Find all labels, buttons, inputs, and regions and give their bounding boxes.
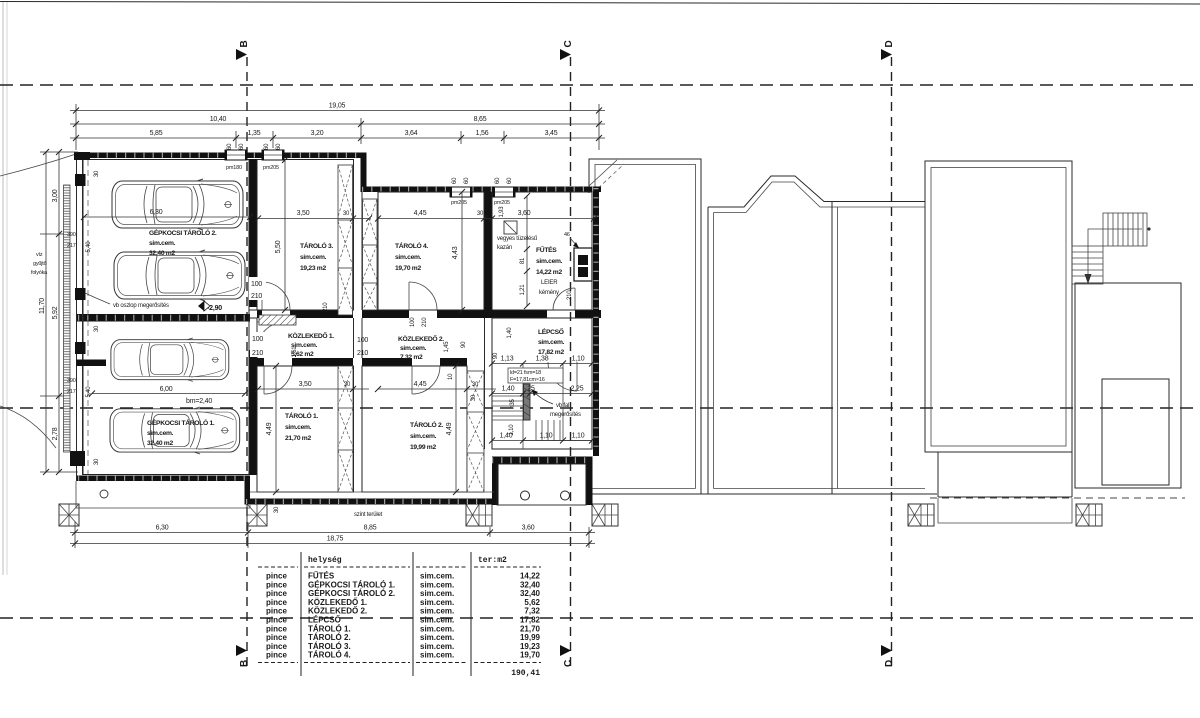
ticks rows — [73, 108, 79, 114]
window w4 pm205 — [493, 187, 515, 197]
svg-text:60: 60 — [464, 177, 470, 184]
svg-text:19,23: 19,23 — [520, 642, 541, 651]
svg-text:4,49: 4,49 — [446, 422, 453, 435]
terrain arc top-left — [0, 154, 76, 176]
svg-text:5,62 m2: 5,62 m2 — [291, 351, 314, 358]
wall right — [593, 187, 599, 457]
svg-text:pm180: pm180 — [226, 165, 242, 171]
svg-text:390: 390 — [67, 378, 76, 384]
T4 4,45/30 dim — [378, 218, 492, 220]
svg-text:60: 60 — [264, 143, 270, 150]
svg-text:KÖZLEKEDŐ 1.: KÖZLEKEDŐ 1. — [288, 331, 334, 340]
wall under T4 segment — [362, 310, 409, 318]
svg-text:6,30: 6,30 — [156, 525, 169, 532]
svg-text:sim.cem.: sim.cem. — [400, 345, 427, 352]
apron drain circle — [100, 490, 108, 498]
T3 3,50/30 dim — [258, 218, 369, 220]
svg-text:30: 30 — [94, 170, 100, 177]
svg-text:1,38: 1,38 — [536, 356, 549, 363]
svg-text:2,78: 2,78 — [52, 427, 59, 440]
svg-text:GÉPKOCSI TÁROLÓ 2.: GÉPKOCSI TÁROLÓ 2. — [149, 228, 217, 237]
svg-text:h35: h35 — [510, 398, 516, 408]
wall garage right pier top — [249, 159, 257, 307]
svg-text:sim.cem.: sim.cem. — [420, 616, 454, 625]
svg-text:100: 100 — [252, 336, 263, 343]
T1 room interior — [257, 366, 354, 492]
svg-text:1,10: 1,10 — [572, 356, 585, 363]
svg-text:30: 30 — [471, 394, 477, 401]
section line D — [891, 57, 893, 668]
section line C — [570, 57, 572, 668]
svg-text:210: 210 — [567, 290, 573, 300]
door garage to K1 — [257, 322, 285, 350]
car 4 — [110, 407, 240, 454]
svg-text:30: 30 — [472, 382, 479, 388]
strip T4 left upper — [363, 199, 378, 310]
svg-text:30: 30 — [94, 325, 100, 332]
svg-text:pm205: pm205 — [494, 200, 510, 206]
wall corridor bottom left segment — [257, 358, 264, 366]
svg-text:FŰTÉS: FŰTÉS — [536, 245, 557, 254]
svg-text:sim.cem.: sim.cem. — [285, 424, 312, 431]
wall garage right pier bottom — [249, 350, 257, 475]
svg-text:3,60: 3,60 — [518, 210, 531, 217]
svg-text:vb oszlop megerősítés: vb oszlop megerősítés — [113, 303, 169, 309]
svg-text:TÁROLÓ 2.: TÁROLÓ 2. — [410, 420, 443, 429]
svg-text:sim.cem.: sim.cem. — [420, 589, 454, 598]
svg-text:17,82 m2: 17,82 m2 — [538, 349, 564, 356]
door K2 to LÉPCSŐ — [548, 362, 577, 391]
section marker D top — [881, 49, 892, 60]
table dashed separator bottom — [258, 662, 541, 664]
svg-text:1,40: 1,40 — [507, 327, 513, 339]
svg-text:GÉPKOCSI TÁROLÓ 1.: GÉPKOCSI TÁROLÓ 1. — [308, 580, 395, 589]
svg-text:TÁROLÓ 1.: TÁROLÓ 1. — [285, 411, 318, 420]
porch wall left — [492, 457, 499, 506]
svg-text:217: 217 — [67, 243, 76, 249]
T2 room interior — [362, 366, 467, 492]
outline shape B gable inner — [714, 182, 838, 213]
svg-text:90: 90 — [461, 341, 467, 348]
outline shape B left double — [707, 207, 709, 494]
svg-text:30: 30 — [274, 506, 280, 513]
svg-text:folyóka: folyóka — [31, 270, 48, 276]
svg-text:B: B — [239, 40, 250, 47]
svg-text:sim.cem.: sim.cem. — [149, 240, 176, 247]
svg-text:3,64: 3,64 — [405, 130, 418, 137]
table column bar 3 — [470, 552, 472, 676]
section marker B bottom — [236, 645, 247, 656]
svg-text:210: 210 — [251, 293, 262, 300]
outline shape A outer — [589, 159, 701, 494]
stair treads bottom flight — [535, 420, 537, 441]
svg-text:megerősítés: megerősítés — [550, 412, 581, 418]
svg-text:TÁROLÓ 3.: TÁROLÓ 3. — [300, 241, 333, 250]
svg-text:32,40: 32,40 — [520, 589, 541, 598]
svg-text:100: 100 — [357, 337, 368, 344]
svg-text:17,82: 17,82 — [520, 616, 541, 625]
svg-text:sim.cem.: sim.cem. — [147, 430, 174, 437]
svg-text:KÖZLEKEDŐ 2.: KÖZLEKEDŐ 2. — [308, 607, 367, 616]
svg-text:19,70 m2: 19,70 m2 — [395, 265, 421, 272]
svg-text:30: 30 — [343, 211, 350, 217]
hatched floor strip at K1 entry — [259, 315, 296, 325]
wall corridor bottom T2 left segment — [362, 358, 412, 366]
svg-text:210: 210 — [357, 350, 368, 357]
svg-text:kazán: kazán — [497, 245, 512, 251]
svg-text:5,40: 5,40 — [86, 386, 92, 398]
footing pad porch left — [466, 504, 492, 526]
section marker C bottom — [560, 645, 571, 656]
outline common bottom — [589, 493, 937, 495]
svg-text:32,40 m2: 32,40 m2 — [147, 440, 173, 447]
strip T3 right upper — [338, 165, 353, 315]
svg-text:11,70: 11,70 — [39, 298, 46, 314]
axis dashed horizontal y408 — [0, 407, 1200, 409]
svg-text:sim.cem.: sim.cem. — [420, 580, 454, 589]
svg-text:B: B — [239, 660, 250, 667]
svg-text:C: C — [563, 660, 574, 667]
porch column circle 1 — [521, 491, 530, 500]
svg-text:sim.cem.: sim.cem. — [420, 607, 454, 616]
footing pad mid right outline — [908, 504, 934, 526]
svg-text:pince: pince — [266, 580, 287, 589]
dim row 10,40 / 8,65 — [70, 123, 605, 125]
svg-text:10: 10 — [448, 373, 454, 380]
svg-text:sim.cem.: sim.cem. — [538, 339, 565, 346]
FŰTÉS 3,60 dim — [492, 218, 594, 220]
outline shape A corner diagonals — [589, 160, 617, 186]
wall corridor bottom T2 right segment — [440, 358, 467, 366]
porch wall right — [586, 457, 593, 506]
left wall pier 3 — [75, 342, 86, 354]
svg-text:6,00: 6,00 — [160, 386, 173, 393]
wall under FŰTÉS right segment — [575, 310, 601, 318]
corridor row dims 4,45/30 — [378, 388, 496, 390]
vb fal leader arrow — [534, 392, 553, 404]
svg-text:4,49: 4,49 — [266, 422, 273, 435]
left wall pier 4 (corner) — [70, 451, 85, 466]
door T1 — [264, 366, 292, 394]
svg-text:2,25: 2,25 — [571, 386, 584, 393]
left parcel faint double line — [2, 2, 4, 575]
wall bottom garage — [76, 476, 250, 482]
door T2 — [412, 366, 440, 394]
strip T1 right lower — [338, 366, 353, 492]
svg-text:3,00: 3,00 — [52, 189, 59, 202]
svg-text:10,40: 10,40 — [210, 116, 227, 123]
garage 6,00 dim — [92, 393, 245, 395]
door T4 — [409, 282, 437, 310]
svg-text:18,75: 18,75 — [327, 536, 344, 543]
outline shape D inner — [931, 168, 1066, 447]
svg-text:6,30: 6,30 — [150, 209, 163, 216]
svg-text:90: 90 — [493, 352, 499, 359]
porch interior — [497, 464, 586, 505]
kazán boiler box — [504, 221, 517, 234]
stair treads left flight — [492, 395, 523, 397]
strip T2 right lower — [467, 371, 484, 492]
svg-text:pince: pince — [266, 616, 287, 625]
T4 room interior — [378, 192, 484, 310]
svg-text:pince: pince — [266, 651, 287, 660]
svg-text:19,99: 19,99 — [520, 633, 541, 642]
svg-text:sim.cem.: sim.cem. — [536, 258, 563, 265]
svg-text:60: 60 — [276, 143, 282, 150]
svg-text:100: 100 — [251, 281, 262, 288]
section line B — [246, 57, 248, 668]
svg-text:pince: pince — [266, 642, 287, 651]
svg-text:100: 100 — [410, 317, 416, 327]
left wall outer line — [76, 152, 78, 481]
svg-text:víz: víz — [36, 252, 43, 258]
svg-text:3,20: 3,20 — [311, 130, 324, 137]
garage 6,30 dim — [84, 216, 250, 218]
svg-text:FŰTÉS: FŰTÉS — [308, 572, 335, 581]
svg-text:sim.cem.: sim.cem. — [291, 342, 318, 349]
svg-text:sim.cem.: sim.cem. — [410, 433, 437, 440]
svg-text:21,70 m2: 21,70 m2 — [285, 435, 311, 442]
svg-text:3,50: 3,50 — [297, 210, 310, 217]
corner top-left black — [74, 152, 90, 160]
wall T4/FŰTÉS vertical — [484, 192, 492, 310]
chimney block — [574, 248, 592, 281]
svg-text:GÉPKOCSI TÁROLÓ 1.: GÉPKOCSI TÁROLÓ 1. — [147, 418, 215, 427]
svg-text:30: 30 — [477, 211, 484, 217]
svg-text:210: 210 — [422, 317, 428, 327]
wall garage middle — [76, 314, 250, 322]
table dashed separator top — [258, 566, 541, 568]
svg-text:sim.cem.: sim.cem. — [395, 254, 422, 261]
svg-text:sim.cem.: sim.cem. — [420, 598, 454, 607]
svg-text:5,62: 5,62 — [524, 598, 540, 607]
svg-text:4,45: 4,45 — [414, 210, 427, 217]
svg-text:14,22: 14,22 — [520, 572, 541, 581]
svg-text:1,40: 1,40 — [502, 386, 515, 393]
svg-text:pince: pince — [266, 624, 287, 633]
svg-text:ld=21 fsm=18: ld=21 fsm=18 — [510, 370, 541, 376]
svg-text:60: 60 — [227, 143, 233, 150]
window w1 pm180 — [225, 150, 247, 160]
left wall stub between garage doors — [76, 360, 106, 367]
wall under T3 (corridor top) left of door — [257, 310, 262, 318]
svg-text:LÉPCSŐ: LÉPCSŐ — [308, 616, 341, 625]
stair flight divider lines — [522, 364, 524, 450]
exterior stair upper run — [1103, 213, 1147, 246]
svg-text:pince: pince — [266, 589, 287, 598]
svg-text:3,60: 3,60 — [522, 525, 535, 532]
svg-text:14,22 m2: 14,22 m2 — [536, 269, 562, 276]
white notches on walls (masonry texture) — [78, 155, 599, 501]
wall bottom storage footing — [245, 499, 495, 505]
svg-text:gyűjtő: gyűjtő — [33, 261, 47, 267]
svg-text:LÉPCSŐ: LÉPCSŐ — [538, 327, 564, 336]
stair dim row 3 — [492, 440, 592, 442]
outline shape B/C divider double — [831, 202, 833, 495]
wall step top — [361, 153, 367, 192]
terrain arc bottom-left — [0, 406, 56, 448]
svg-text:1,10: 1,10 — [540, 433, 553, 440]
svg-text:217: 217 — [67, 389, 76, 395]
T2 4,49 vert dim — [455, 366, 457, 492]
stair dim row 1 — [492, 363, 592, 365]
svg-text:TÁROLÓ 1.: TÁROLÓ 1. — [308, 624, 351, 633]
svg-text:1,21: 1,21 — [520, 284, 526, 296]
section marker D bottom — [881, 645, 892, 656]
svg-text:1,45: 1,45 — [444, 341, 450, 353]
svg-text:19,99 m2: 19,99 m2 — [410, 444, 436, 451]
svg-text:25: 25 — [527, 386, 535, 393]
footing pad at garage/storage step — [247, 504, 267, 526]
svg-text:kémény: kémény — [539, 290, 559, 296]
svg-text:8,85: 8,85 — [364, 525, 377, 532]
svg-text:7,32 m2: 7,32 m2 — [400, 354, 423, 361]
car 2 — [114, 250, 245, 301]
left wall axis dashed — [87, 160, 89, 474]
svg-text:190,41: 190,41 — [511, 669, 540, 678]
svg-text:sim.cem.: sim.cem. — [420, 624, 454, 633]
section marker C top — [560, 49, 571, 60]
X hatching inside strips — [338, 165, 484, 492]
FŰTÉS vert chain 1,93/81/1,21 — [526, 196, 528, 306]
section marker B top — [236, 49, 247, 60]
guides — [75, 104, 77, 150]
outline shape A inner — [595, 165, 696, 489]
svg-text:60: 60 — [239, 143, 245, 150]
LÉPCSŐ left wall double line — [484, 318, 486, 449]
svg-text:sim.cem.: sim.cem. — [420, 651, 454, 660]
-2,90 level mark — [198, 301, 204, 311]
garage interior outline — [83, 160, 249, 475]
porch column circle 2 — [561, 491, 570, 500]
svg-text:GÉPKOCSI TÁROLÓ 2.: GÉPKOCSI TÁROLÓ 2. — [308, 589, 395, 598]
svg-text:3,50: 3,50 — [299, 381, 312, 388]
svg-text:pm205: pm205 — [451, 200, 467, 206]
wall top-1 — [76, 153, 366, 159]
garage apron outline — [76, 481, 250, 508]
door T3 — [262, 282, 290, 310]
svg-text:5,40: 5,40 — [86, 241, 92, 253]
kémény leader 46 — [570, 238, 578, 247]
outline shape C top double — [838, 201, 926, 203]
víz gyűjtő folyóka hatched strip — [64, 185, 71, 452]
svg-text:vegyes tüzelésű: vegyes tüzelésű — [497, 236, 538, 242]
stair dim row 2 — [492, 393, 592, 395]
dim row 5,85.. — [70, 137, 605, 139]
corridor row dims 3,50/30 — [258, 388, 369, 390]
svg-text:32,40: 32,40 — [520, 580, 541, 589]
svg-text:TÁROLÓ 4.: TÁROLÓ 4. — [395, 241, 428, 250]
svg-text:60: 60 — [452, 177, 458, 184]
svg-text:1,35: 1,35 — [248, 130, 261, 137]
svg-text:pince: pince — [266, 607, 287, 616]
svg-text:4,43: 4,43 — [452, 246, 459, 259]
FŰTÉS room interior — [492, 192, 592, 310]
svg-text:1,10: 1,10 — [509, 424, 515, 436]
axis dashed horizontal y85 — [0, 84, 1200, 86]
svg-text:19,70: 19,70 — [520, 651, 541, 660]
svg-text:TÁROLÓ 3.: TÁROLÓ 3. — [308, 642, 351, 651]
LÉPCSŐ room interior — [492, 318, 592, 449]
svg-text:5,85: 5,85 — [150, 130, 163, 137]
exterior stair lower run — [1072, 246, 1103, 284]
window w2 pm205 — [262, 150, 284, 160]
door FŰTÉS — [553, 288, 575, 310]
svg-text:sim.cem.: sim.cem. — [300, 254, 327, 261]
vb fal reinforced bar — [524, 384, 531, 420]
svg-text:vb fal: vb fal — [556, 403, 569, 409]
svg-text:5,50: 5,50 — [275, 240, 282, 253]
svg-text:60: 60 — [507, 177, 513, 184]
table column bar 1 — [300, 552, 302, 676]
svg-text:8,65: 8,65 — [474, 116, 487, 123]
svg-text:46: 46 — [564, 232, 570, 238]
svg-text:1,10: 1,10 — [572, 433, 585, 440]
svg-text:1,13: 1,13 — [501, 356, 514, 363]
outline shape D lower extension — [937, 452, 939, 497]
svg-text:32,40 m2: 32,40 m2 — [149, 250, 175, 257]
T3 room interior — [257, 160, 354, 311]
svg-text:210: 210 — [323, 302, 329, 312]
svg-text:ter:m2: ter:m2 — [478, 556, 507, 565]
footing pad left of garage — [59, 504, 79, 526]
outline shape E outer — [1075, 283, 1181, 488]
stair text box — [508, 368, 563, 383]
left wall pier 1 — [75, 174, 86, 186]
car 1 — [112, 179, 243, 230]
wall under T3 door-to-strip — [290, 310, 353, 318]
svg-text:sim.cem.: sim.cem. — [420, 633, 454, 642]
storage bottom thin slab line — [250, 491, 494, 493]
T4 4,43 vert dim — [461, 192, 463, 310]
wall top-2 — [361, 187, 602, 193]
svg-text:bm=2,40: bm=2,40 — [186, 398, 212, 405]
boundary top line — [0, 2, 1200, 5]
svg-text:60: 60 — [495, 177, 501, 184]
outline shape E inner rect — [1102, 379, 1169, 485]
table rows — [266, 572, 541, 660]
svg-text:TÁROLÓ 4.: TÁROLÓ 4. — [308, 651, 351, 660]
wall under T4/FŰTÉS segment — [437, 310, 547, 318]
svg-text:3,45: 3,45 — [545, 130, 558, 137]
dim row 19,05 — [70, 110, 605, 112]
svg-text:sim.cem.: sim.cem. — [420, 642, 454, 651]
svg-text:pince: pince — [266, 598, 287, 607]
footing pad far right outline — [1076, 504, 1102, 526]
svg-text:KÖZLEKEDŐ 1.: KÖZLEKEDŐ 1. — [308, 598, 367, 607]
stair walk line with down arrow — [1088, 229, 1142, 276]
garage door threshold — [249, 309, 257, 311]
svg-text:F=17,81cm×16: F=17,81cm×16 — [510, 377, 545, 383]
svg-text:TÁROLÓ 2.: TÁROLÓ 2. — [308, 633, 351, 642]
svg-text:pince: pince — [266, 633, 287, 642]
svg-text:D: D — [884, 40, 895, 47]
corridor interior lines — [256, 318, 258, 358]
svg-text:D: D — [884, 660, 895, 667]
svg-text:-2,90: -2,90 — [207, 305, 222, 312]
svg-text:81: 81 — [520, 257, 526, 264]
svg-text:LEIER: LEIER — [541, 280, 558, 286]
svg-text:C: C — [563, 40, 574, 47]
svg-text:1,93: 1,93 — [499, 206, 505, 218]
svg-text:szint terület: szint terület — [354, 512, 383, 518]
window w3 pm205 — [450, 187, 472, 197]
svg-text:pince: pince — [266, 572, 287, 581]
svg-text:210: 210 — [252, 350, 263, 357]
svg-text:30: 30 — [344, 382, 351, 388]
outline shape D outer — [925, 161, 1072, 452]
svg-text:19,23 m2: 19,23 m2 — [300, 265, 326, 272]
